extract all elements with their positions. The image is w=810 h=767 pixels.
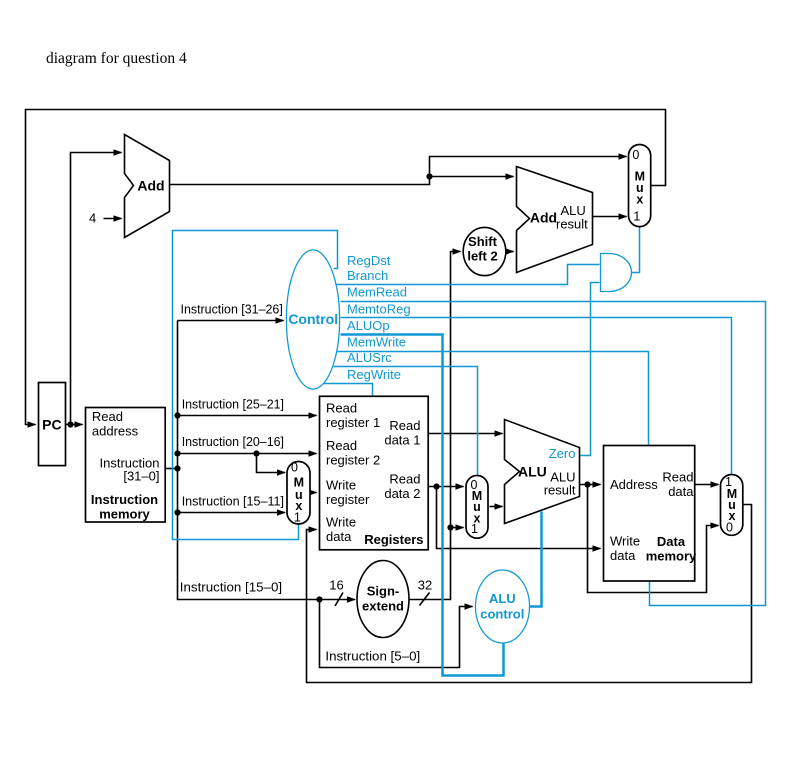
wire: Read data 2 branch down to Data memory Write data <box>437 487 601 549</box>
wire: instruction bus vertical with [31-26] tap to Control and [15-0] tap to sign-extend <box>178 321 356 600</box>
wire: Branch control to AND gate input 1 <box>337 265 600 285</box>
svg-text:MemtoReg: MemtoReg <box>347 301 411 316</box>
svg-text:Write: Write <box>610 534 640 549</box>
ALUSrc mux <box>466 476 488 539</box>
wire: Add ALU result output to PCSrc mux input 1 <box>593 216 627 218</box>
wire: instruction memory output stub <box>166 468 178 470</box>
svg-text:Data: Data <box>657 534 686 549</box>
svg-text:Read: Read <box>662 470 693 485</box>
svg-text:ALUOp: ALUOp <box>347 318 390 333</box>
svg-text:ALU: ALU <box>489 591 516 606</box>
wire: MemWrite control to Data memory top <box>338 352 649 446</box>
svg-text:data: data <box>326 529 352 544</box>
wire: ALU operation (thick) from ALU control to ALU bottom <box>530 512 542 607</box>
adder Add (PC+4) <box>125 135 170 238</box>
instruction memory <box>86 408 166 523</box>
wire: Instruction [15-11] to RegDst mux input 1 <box>178 512 286 514</box>
svg-text:MemWrite: MemWrite <box>347 335 406 350</box>
svg-text:Instruction: Instruction <box>91 492 158 507</box>
control unit oval <box>286 250 339 389</box>
node: instruction bus tap [25-21] <box>174 412 180 418</box>
wire: Instruction [25-21] to Read register 1 <box>178 415 317 417</box>
svg-text:Read: Read <box>389 418 420 433</box>
svg-text:data 2: data 2 <box>384 486 420 501</box>
node: PC+4 branch junction <box>426 173 432 179</box>
svg-text:0: 0 <box>726 521 733 535</box>
wire: ALUSrc mux output to ALU input 2 <box>490 506 503 508</box>
svg-text:Sign-: Sign- <box>367 584 400 599</box>
instruction field labels <box>180 301 420 663</box>
svg-text:Zero: Zero <box>549 446 576 461</box>
wire: Instruction [20-16] to Read register 2 <box>178 453 317 455</box>
ALU <box>505 420 580 524</box>
svg-text:Instruction [5–0]: Instruction [5–0] <box>325 648 420 663</box>
node: instruction bus tap [15-11] <box>174 509 180 515</box>
wire: PC+4 branch to second Add top input <box>430 176 514 178</box>
svg-text:Write: Write <box>326 514 356 529</box>
svg-text:x: x <box>636 193 643 207</box>
svg-text:ALU: ALU <box>518 463 547 479</box>
wire: constant 4 into Add <box>104 218 122 220</box>
registers file <box>320 396 429 550</box>
svg-text:register: register <box>326 492 370 507</box>
slash: 16-bit width mark <box>335 593 343 607</box>
svg-text:diagram for question 4: diagram for question 4 <box>46 50 187 67</box>
node: sign-extend output branch junction <box>447 524 453 530</box>
PC register <box>39 383 66 466</box>
adder Add ALU result (branch target) <box>517 167 593 273</box>
svg-text:data: data <box>610 548 636 563</box>
wire: write-back from MemtoReg mux around bottom to Registers Write data <box>307 505 752 683</box>
svg-text:Address: Address <box>610 477 658 492</box>
svg-text:memory: memory <box>646 549 697 564</box>
svg-text:memory: memory <box>99 506 150 521</box>
svg-text:RegDst: RegDst <box>347 253 391 268</box>
svg-text:address: address <box>92 424 139 439</box>
svg-text:left 2: left 2 <box>467 249 497 264</box>
wire: Instruction [31-26] into Control <box>178 320 284 322</box>
MemtoReg mux <box>721 475 743 536</box>
svg-text:PC: PC <box>42 416 61 432</box>
svg-text:Registers: Registers <box>364 532 423 547</box>
wire: PC output to instruction memory read address <box>66 424 83 426</box>
shift left 2 <box>463 227 506 275</box>
wire: Read data 1 to ALU input 1 <box>428 433 503 435</box>
ALU control oval <box>476 570 530 643</box>
wire: ALU result bypass to MemtoReg mux input 0 <box>588 485 719 593</box>
svg-text:control: control <box>480 607 524 622</box>
wire: Data memory Read data to MemtoReg mux input 1 <box>695 484 719 486</box>
wire: RegWrite control to Registers top <box>324 384 373 396</box>
svg-text:0: 0 <box>632 148 639 162</box>
wire: ALUSrc control to ALUSrc mux top <box>334 367 478 475</box>
svg-text:Control: Control <box>288 311 338 327</box>
wire: RegDst control from Control around left to RegDst mux bottom <box>173 231 338 540</box>
wire: sign-extend output branch to ALUSrc mux input 1 <box>451 527 464 529</box>
svg-text:1: 1 <box>471 522 478 536</box>
svg-text:Write: Write <box>326 478 356 493</box>
node: instruction bus tap [20-16] <box>174 450 180 456</box>
svg-text:RegWrite: RegWrite <box>347 367 401 382</box>
control signal labels <box>347 253 411 382</box>
wire: ALUOp control (thick) down and around to ALU control bottom <box>341 335 504 676</box>
wire: PC feedback loop (mux output right, up, across top, down left side into PC) <box>26 110 666 425</box>
svg-text:MemRead: MemRead <box>347 285 407 300</box>
svg-text:data: data <box>668 484 694 499</box>
svg-text:Add: Add <box>137 178 164 194</box>
svg-text:Instruction [20–16]: Instruction [20–16] <box>182 434 284 449</box>
svg-text:result: result <box>544 483 576 498</box>
svg-text:register 2: register 2 <box>326 453 380 468</box>
node: ALU result branch junction <box>584 481 590 487</box>
svg-text:ALUSrc: ALUSrc <box>347 350 392 365</box>
svg-text:4: 4 <box>89 211 96 226</box>
data memory <box>604 446 695 582</box>
svg-text:register 1: register 1 <box>326 415 380 430</box>
wire: Zero output from ALU up to AND gate input 2 <box>580 283 600 456</box>
svg-text:Instruction [15–0]: Instruction [15–0] <box>180 579 282 594</box>
svg-text:32: 32 <box>418 578 432 593</box>
svg-text:Read: Read <box>326 438 357 453</box>
svg-text:Add: Add <box>530 210 557 226</box>
wire: PC output branch up to Add <box>71 153 122 425</box>
wire: RegDst mux output to Write register <box>311 492 317 494</box>
svg-text:1: 1 <box>633 210 640 224</box>
svg-text:Instruction [31–26]: Instruction [31–26] <box>181 301 283 316</box>
svg-text:1: 1 <box>294 511 301 525</box>
svg-text:Instruction [25–21]: Instruction [25–21] <box>182 397 284 412</box>
wire: shift-left-2 output to Add <box>506 251 514 253</box>
wire: AND gate output (PCSrc) to PCSrc mux bottom <box>632 227 640 273</box>
svg-text:Instruction [15–11]: Instruction [15–11] <box>182 493 284 508</box>
wire: Instruction [20-16] branch down to RegDst mux input 0 <box>257 454 286 473</box>
svg-text:Shift: Shift <box>468 234 498 249</box>
wire: Instruction [5-0] to ALU control <box>320 600 473 668</box>
svg-text:Read: Read <box>92 409 123 424</box>
svg-text:Branch: Branch <box>347 268 388 283</box>
PCSrc mux <box>629 145 651 227</box>
wire: MemtoReg control to MemtoReg mux top <box>341 318 732 474</box>
svg-text:data 1: data 1 <box>384 433 420 448</box>
svg-text:[31–0]: [31–0] <box>123 469 159 484</box>
wire: Read data 2 to ALUSrc mux input 0 <box>428 486 464 488</box>
node: [15-0] branch junction <box>316 596 322 602</box>
svg-text:16: 16 <box>329 578 343 593</box>
AND gate (branch and zero) <box>601 254 632 292</box>
svg-text:Read: Read <box>326 401 357 416</box>
node: [20-16] branch junction <box>253 450 259 456</box>
node: PC output junction <box>67 421 73 427</box>
wire: Add output (PC+4) to PCSrc mux input 0 <box>170 157 627 185</box>
wire: ALU result to Data memory Address <box>580 484 601 486</box>
svg-text:result: result <box>556 217 588 232</box>
node: Read data 2 branch junction <box>433 483 439 489</box>
wire: MemRead control around right to Data memory bottom <box>341 302 766 606</box>
svg-text:0: 0 <box>291 461 298 475</box>
sign extend <box>357 561 409 638</box>
node: instruction bus main tap <box>174 465 180 471</box>
svg-text:extend: extend <box>362 599 404 614</box>
slash: 32-bit width mark <box>420 593 430 606</box>
wire: sign-extend output up to shift-left-2 <box>409 252 461 600</box>
svg-text:Read: Read <box>389 472 420 487</box>
RegDst mux <box>287 462 310 525</box>
